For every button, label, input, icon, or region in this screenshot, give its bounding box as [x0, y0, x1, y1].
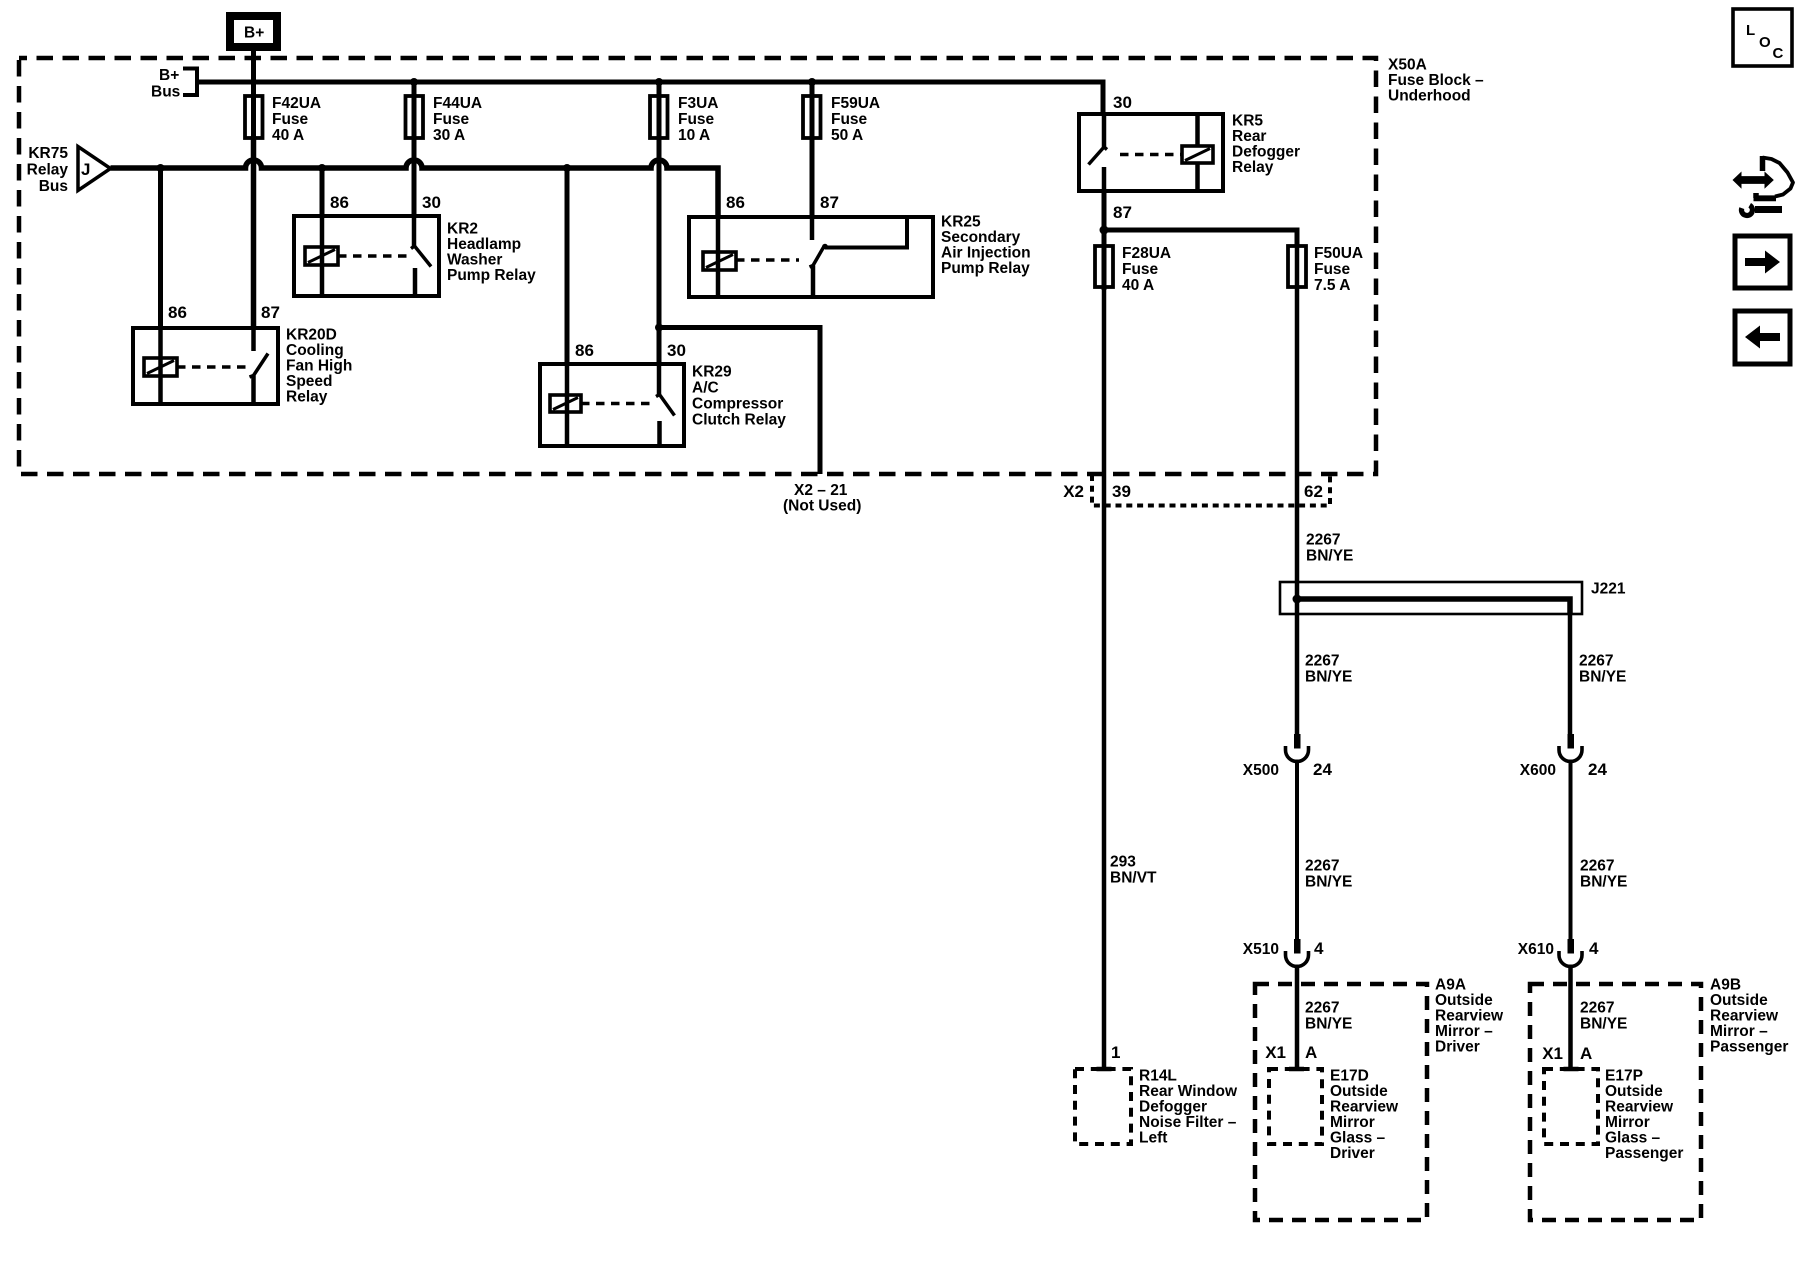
svg-text:Pump Relay: Pump Relay — [941, 260, 1030, 277]
svg-text:B+: B+ — [244, 25, 264, 42]
svg-text:4: 4 — [1314, 939, 1324, 958]
label KR5 Rear Defogger Relay — [1232, 113, 1300, 177]
svg-text:Rear: Rear — [1232, 128, 1266, 145]
icon previous page arrow — [1735, 311, 1790, 364]
label wire 2267 BN/YE (inside A9B) — [1580, 1000, 1627, 1033]
relay KR20D Cooling Fan High Speed Relay — [133, 328, 278, 404]
svg-text:KR20D: KR20D — [286, 327, 337, 344]
connector X510 pin 4 — [1286, 939, 1309, 967]
svg-text:Fan High: Fan High — [286, 358, 352, 375]
node junction 87 branch — [1100, 226, 1109, 235]
svg-text:2267: 2267 — [1580, 1000, 1614, 1017]
svg-text:F3UA: F3UA — [678, 95, 718, 112]
relay KR5 Rear Defogger Relay — [1079, 114, 1223, 191]
svg-text:Relay: Relay — [1232, 159, 1274, 176]
node junction relay bus KR29-86 — [563, 164, 571, 172]
wire X600 to X610 (2267 BN/YE) — [1569, 760, 1573, 942]
svg-text:Glass –: Glass – — [1605, 1130, 1661, 1147]
svg-text:Bus: Bus — [39, 178, 68, 195]
component A9A Outside Rearview Mirror - Driver (dashed box) — [1255, 984, 1427, 1220]
svg-text:2267: 2267 — [1305, 1000, 1339, 1017]
svg-text:Fuse: Fuse — [678, 111, 715, 128]
wire X510 into A9A to E17D — [1295, 965, 1300, 1070]
svg-text:7.5 A: 7.5 A — [1314, 277, 1350, 294]
icon vehicle navigation (car with arrows and wrench) — [1733, 156, 1794, 215]
svg-text:Outside: Outside — [1435, 992, 1493, 1009]
label E17P Outside Rearview Mirror Glass - Passenger — [1605, 1068, 1683, 1163]
svg-text:KR75: KR75 — [28, 145, 68, 162]
svg-text:2267: 2267 — [1305, 653, 1339, 670]
wire F50UA down to J221 — [1295, 246, 1300, 746]
node junction bus-F42UA — [250, 79, 257, 86]
svg-text:293: 293 — [1110, 854, 1136, 871]
icon next page arrow — [1735, 236, 1790, 288]
svg-text:Mirror: Mirror — [1605, 1114, 1650, 1131]
svg-text:Fuse: Fuse — [831, 111, 868, 128]
svg-text:Defogger: Defogger — [1139, 1099, 1207, 1116]
node junction relay bus KR2-86 — [318, 164, 326, 172]
node junction bus-F3UA — [655, 78, 663, 86]
svg-text:B+: B+ — [159, 67, 179, 84]
svg-text:X2: X2 — [1063, 482, 1084, 501]
label wire 2267 BN/YE (inside A9A) — [1305, 1000, 1352, 1033]
svg-text:86: 86 — [726, 193, 745, 212]
label X50A Fuse Block - Underhood — [1388, 57, 1484, 105]
wire X610 into A9B to E17P — [1568, 965, 1573, 1070]
label KR25 Secondary Air Injection Pump Relay — [941, 214, 1031, 278]
wire F42UA to KR20D pin 87 — [251, 136, 257, 328]
node junction bus-F59UA — [808, 78, 816, 86]
svg-text:Outside: Outside — [1605, 1083, 1663, 1100]
svg-text:J: J — [81, 160, 90, 179]
svg-text:Headlamp: Headlamp — [447, 236, 521, 253]
fuse F42UA — [245, 96, 263, 138]
svg-text:F42UA: F42UA — [272, 95, 321, 112]
svg-text:X600: X600 — [1520, 762, 1556, 779]
svg-text:Rear Window: Rear Window — [1139, 1083, 1238, 1100]
component E17D Outside Rearview Mirror Glass - Driver (dashed box) — [1269, 1069, 1322, 1144]
svg-text:X2 – 21: X2 – 21 — [794, 482, 848, 499]
fuse F50UA — [1288, 246, 1306, 287]
svg-text:KR2: KR2 — [447, 221, 478, 238]
svg-text:J221: J221 — [1591, 581, 1626, 598]
connector X600 pin 24 — [1559, 734, 1582, 762]
svg-text:KR25: KR25 — [941, 214, 981, 231]
label wire 293 BN/VT — [1110, 854, 1157, 887]
icon LOC locator box — [1733, 9, 1792, 66]
svg-text:O: O — [1759, 34, 1771, 51]
svg-text:Outside: Outside — [1330, 1083, 1388, 1100]
wire branch to X2-21 (Not Used) — [659, 328, 820, 475]
label wire 2267 BN/YE (below pin 62) — [1306, 532, 1353, 565]
svg-text:86: 86 — [168, 303, 187, 322]
label R14L Rear Window Defogger Noise Filter - Left — [1139, 1068, 1238, 1147]
svg-text:Rearview: Rearview — [1710, 1008, 1779, 1025]
wire relay bus horizontal with hops — [111, 160, 719, 217]
svg-text:A: A — [1305, 1043, 1317, 1062]
svg-text:X500: X500 — [1243, 762, 1279, 779]
label KR20D Cooling Fan High Speed Relay — [286, 327, 352, 406]
label F28UA Fuse 40 A — [1122, 245, 1171, 294]
node KR75 Relay Bus source triangle J — [78, 147, 111, 191]
wire J221 to X600 — [1568, 614, 1573, 746]
svg-text:40 A: 40 A — [1122, 277, 1154, 294]
relay KR2 Headlamp Washer Pump Relay — [294, 216, 439, 296]
svg-text:BN/YE: BN/YE — [1580, 874, 1627, 891]
svg-text:BN/VT: BN/VT — [1110, 870, 1157, 887]
wire KR5 87 to F28UA and F50UA branch — [1104, 191, 1297, 290]
svg-text:BN/YE: BN/YE — [1305, 669, 1352, 686]
label E17D Outside Rearview Mirror Glass - Driver — [1330, 1068, 1399, 1163]
svg-text:Speed: Speed — [286, 373, 333, 390]
svg-text:2267: 2267 — [1306, 532, 1340, 549]
wire X500 to X510 (2267 BN/YE) — [1295, 760, 1299, 942]
svg-text:Washer: Washer — [447, 252, 502, 269]
wire F3UA to KR29 pin 30 — [657, 82, 662, 364]
fuse F3UA — [650, 96, 668, 138]
label A9B Outside Rearview Mirror - Passenger — [1710, 977, 1788, 1056]
svg-text:Bus: Bus — [151, 84, 180, 101]
svg-text:40 A: 40 A — [272, 127, 304, 144]
svg-text:30: 30 — [1113, 93, 1132, 112]
svg-text:39: 39 — [1112, 482, 1131, 501]
B+ power symbol — [230, 16, 277, 47]
splice J221 — [1280, 582, 1582, 614]
svg-text:Relay: Relay — [286, 389, 328, 406]
svg-text:A9A: A9A — [1435, 977, 1466, 994]
svg-text:(Not Used): (Not Used) — [783, 498, 861, 515]
svg-text:Fuse: Fuse — [433, 111, 470, 128]
svg-text:L: L — [1746, 22, 1755, 39]
fuse F28UA — [1095, 246, 1113, 287]
svg-text:Rearview: Rearview — [1605, 1099, 1674, 1116]
svg-text:Clutch Relay: Clutch Relay — [692, 412, 786, 429]
svg-text:Pump Relay: Pump Relay — [447, 267, 536, 284]
node junction F3UA wire / X2-21 branch — [655, 324, 663, 332]
wire relay bus to KR20D pin 86 — [158, 168, 163, 328]
svg-text:X510: X510 — [1243, 941, 1279, 958]
svg-text:Mirror –: Mirror – — [1435, 1023, 1493, 1040]
svg-text:Glass –: Glass – — [1330, 1130, 1386, 1147]
svg-text:BN/YE: BN/YE — [1305, 1016, 1352, 1033]
svg-text:Defogger: Defogger — [1232, 144, 1300, 161]
svg-text:Cooling: Cooling — [286, 342, 344, 359]
svg-text:87: 87 — [1113, 203, 1132, 222]
svg-text:A: A — [1580, 1044, 1592, 1063]
wire B+ bus horizontal — [197, 82, 1103, 114]
svg-text:30: 30 — [667, 341, 686, 360]
svg-text:1: 1 — [1111, 1043, 1120, 1062]
svg-text:X1: X1 — [1542, 1044, 1563, 1063]
connector X610 pin 4 — [1559, 939, 1582, 967]
label wire 2267 BN/YE (right of J221 drop) — [1579, 653, 1626, 686]
node junction bus-F44UA — [410, 78, 418, 86]
svg-text:86: 86 — [330, 193, 349, 212]
svg-text:86: 86 — [575, 341, 594, 360]
component R14L Rear Window Defogger Noise Filter - Left (dashed box) — [1075, 1069, 1131, 1144]
node X2 pass-through dotted bracket pins 39 62 — [1092, 475, 1330, 506]
svg-text:30 A: 30 A — [433, 127, 465, 144]
svg-text:Fuse Block –: Fuse Block – — [1388, 72, 1484, 89]
svg-text:87: 87 — [261, 303, 280, 322]
svg-text:24: 24 — [1588, 760, 1607, 779]
svg-text:KR5: KR5 — [1232, 113, 1263, 130]
svg-text:A/C: A/C — [692, 380, 719, 397]
svg-text:X1: X1 — [1265, 1043, 1286, 1062]
label F59UA Fuse 50 A — [831, 95, 880, 144]
component E17P Outside Rearview Mirror Glass - Passenger (dashed box) — [1544, 1069, 1598, 1144]
svg-text:Rearview: Rearview — [1435, 1008, 1504, 1025]
svg-text:Noise Filter –: Noise Filter – — [1139, 1114, 1237, 1131]
svg-text:E17D: E17D — [1330, 1068, 1369, 1085]
label wire 2267 BN/YE (X600-X610) — [1580, 858, 1627, 891]
node junction relay bus KR20D-86 — [157, 164, 165, 172]
svg-text:Mirror –: Mirror – — [1710, 1023, 1768, 1040]
svg-text:F50UA: F50UA — [1314, 245, 1363, 262]
svg-text:Fuse: Fuse — [272, 111, 309, 128]
svg-text:Relay: Relay — [27, 162, 69, 179]
label X2 - 21 (Not Used) — [783, 482, 861, 515]
component A9B Outside Rearview Mirror - Passenger (dashed box) — [1530, 984, 1701, 1220]
svg-text:C: C — [1773, 45, 1784, 62]
svg-text:2267: 2267 — [1579, 653, 1613, 670]
relay KR29 A/C Compressor Clutch Relay — [540, 364, 684, 446]
connector X500 pin 24 — [1286, 734, 1309, 762]
label F50UA Fuse 7.5 A — [1314, 245, 1363, 294]
svg-text:F28UA: F28UA — [1122, 245, 1171, 262]
node B+ Bus bracket — [151, 67, 197, 101]
relay KR25 Secondary Air Injection Pump Relay — [689, 217, 933, 297]
svg-text:Left: Left — [1139, 1130, 1167, 1147]
svg-text:2267: 2267 — [1305, 858, 1339, 875]
label KR29 A/C Compressor Clutch Relay — [692, 364, 786, 429]
svg-text:BN/YE: BN/YE — [1306, 548, 1353, 565]
svg-text:4: 4 — [1589, 939, 1599, 958]
svg-text:Compressor: Compressor — [692, 396, 783, 413]
svg-text:BN/YE: BN/YE — [1580, 1016, 1627, 1033]
wire F59UA to KR25 pin 87 — [810, 82, 815, 217]
fuse F59UA — [803, 96, 821, 138]
label wire 2267 BN/YE (left of J221 drop) — [1305, 653, 1352, 686]
wire relay bus to KR29 pin 86 — [565, 168, 570, 364]
svg-text:Air Injection: Air Injection — [941, 245, 1031, 262]
svg-text:Passenger: Passenger — [1605, 1145, 1683, 1162]
svg-text:Outside: Outside — [1710, 992, 1768, 1009]
svg-text:Fuse: Fuse — [1314, 261, 1351, 278]
svg-text:Mirror: Mirror — [1330, 1114, 1375, 1131]
svg-text:A9B: A9B — [1710, 977, 1741, 994]
svg-text:BN/YE: BN/YE — [1579, 669, 1626, 686]
svg-text:Passenger: Passenger — [1710, 1039, 1788, 1056]
label A9A Outside Rearview Mirror - Driver — [1435, 977, 1504, 1056]
svg-text:Fuse: Fuse — [1122, 261, 1159, 278]
svg-text:24: 24 — [1313, 760, 1332, 779]
svg-text:Secondary: Secondary — [941, 229, 1021, 246]
svg-text:KR29: KR29 — [692, 364, 732, 381]
svg-text:Rearview: Rearview — [1330, 1099, 1399, 1116]
wire relay bus to KR2 pin 86 — [320, 168, 325, 216]
svg-text:10 A: 10 A — [678, 127, 710, 144]
svg-text:E17P: E17P — [1605, 1068, 1643, 1085]
label KR75 Relay Bus — [27, 145, 69, 195]
label F42UA Fuse 40 A — [272, 95, 321, 144]
wire F28UA to R14L (293 BN/VT) — [1102, 287, 1107, 1069]
fuse F44UA — [406, 96, 424, 138]
fuse block X50A dashed boundary — [19, 58, 1376, 474]
label KR2 Headlamp Washer Pump Relay — [447, 221, 536, 285]
svg-text:87: 87 — [820, 193, 839, 212]
svg-text:Underhood: Underhood — [1388, 88, 1471, 105]
svg-text:BN/YE: BN/YE — [1305, 874, 1352, 891]
svg-text:R14L: R14L — [1139, 1068, 1177, 1085]
wire B+ feed to bus — [251, 51, 256, 140]
svg-text:62: 62 — [1304, 482, 1323, 501]
label F3UA Fuse 10 A — [678, 95, 718, 144]
svg-text:F44UA: F44UA — [433, 95, 482, 112]
svg-text:X610: X610 — [1518, 941, 1554, 958]
svg-text:F59UA: F59UA — [831, 95, 880, 112]
svg-text:50 A: 50 A — [831, 127, 863, 144]
wire F44UA to KR2 pin 30 — [412, 82, 417, 216]
svg-text:30: 30 — [422, 193, 441, 212]
svg-text:Driver: Driver — [1435, 1039, 1480, 1056]
svg-text:Driver: Driver — [1330, 1145, 1375, 1162]
svg-text:2267: 2267 — [1580, 858, 1614, 875]
label F44UA Fuse 30 A — [433, 95, 482, 144]
svg-text:X50A: X50A — [1388, 57, 1427, 74]
label wire 2267 BN/YE (X500-X510) — [1305, 858, 1352, 891]
